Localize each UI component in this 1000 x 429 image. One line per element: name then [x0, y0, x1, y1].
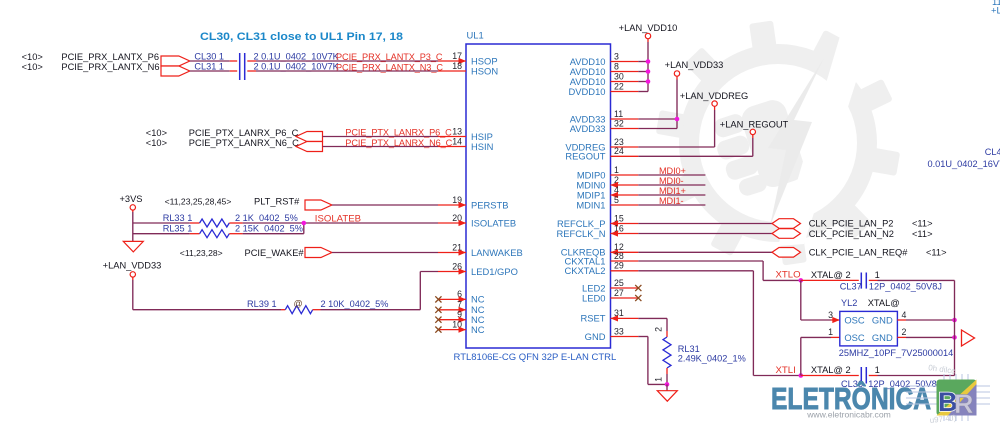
svg-text:OSC: OSC: [844, 332, 865, 343]
UL1 pin 22 DVDD10: [569, 81, 639, 97]
wire RL39 to UL1 pin26: [321, 272, 439, 310]
svg-text:HSON: HSON: [471, 65, 498, 76]
value CL36: 12P_0402_50V8J: [868, 379, 941, 389]
svg-text:PCIE_PTX_LANRX_P6_C: PCIE_PTX_LANRX_P6_C: [345, 128, 452, 138]
power +LAN_VDD33 node (left): [130, 272, 135, 277]
svg-text:XTLO: XTLO: [776, 269, 801, 280]
svg-text:XTAL@: XTAL@: [868, 298, 900, 308]
svg-text:<10>: <10>: [22, 62, 43, 72]
label 1 (CL36): [875, 365, 880, 375]
UL1 pin 5 MDIN1: [576, 195, 638, 211]
svg-text:MDI0+: MDI0+: [659, 166, 686, 176]
svg-text:+LAN_VDD10: +LAN_VDD10: [619, 23, 678, 33]
junction XTLI: [799, 373, 804, 378]
svg-text:ISOLATEB: ISOLATEB: [471, 217, 516, 228]
svg-text:NC: NC: [471, 294, 485, 305]
YL2 pin text OSC (top): [844, 315, 865, 326]
value CL31: 2 0.1U_0402_10V7K: [254, 62, 340, 72]
label 1 (CL37): [875, 270, 880, 280]
wire MDI1-: [638, 204, 705, 206]
svg-text:12P_0402_50V8J: 12P_0402_50V8J: [869, 281, 942, 291]
wire MDI0-: [638, 184, 705, 186]
label RL35 1: [163, 223, 193, 233]
UL1 pin 23 VDDREG: [565, 137, 638, 153]
svg-text:CLK_PCIE_LAN_P2: CLK_PCIE_LAN_P2: [809, 219, 894, 229]
wire +3VS down: [132, 210, 134, 241]
svg-text:+3VS: +3VS: [119, 194, 142, 204]
svg-text:<10>: <10>: [22, 52, 43, 62]
UL1 pin 31 RSET: [580, 308, 638, 324]
svg-text:<10>: <10>: [146, 138, 167, 148]
capacitor CL37: [801, 273, 878, 289]
wire REFCLK_N: [638, 233, 772, 235]
label CL36: [841, 379, 863, 389]
UL1 pin 11 AVDD33: [570, 109, 639, 125]
svg-text:<11>: <11>: [912, 219, 933, 229]
net label PCIE_PTX_LANRX_N6_C: [189, 138, 299, 148]
wire +LAN_VDD10 rail: [638, 39, 648, 92]
svg-text:REFCLK_N: REFCLK_N: [557, 228, 606, 239]
UL1 pin 2 MDIN0: [576, 175, 638, 191]
label sheet ref <11> (P2): [912, 219, 933, 229]
wire CL36 to right rail: [878, 375, 955, 377]
svg-text:PCIE_PTX_LANRX_N6_C: PCIE_PTX_LANRX_N6_C: [189, 138, 299, 148]
svg-text:PCIE_PRX_LANTX_P3_C: PCIE_PRX_LANTX_P3_C: [336, 52, 443, 62]
net label PCIE_WAKE#: [245, 248, 305, 258]
value CL37: 12P_0402_50V8J: [869, 281, 942, 291]
value RL35: 2 15K_0402_5%: [235, 223, 303, 233]
svg-text:2.49K_0402_1%: 2.49K_0402_1%: [678, 353, 746, 363]
svg-text:LANWAKEB: LANWAKEB: [471, 247, 523, 258]
value RL31: 2.49K_0402_1%: [678, 353, 746, 363]
UL1 pin 18 HSON: [438, 61, 498, 77]
wire to ground: [666, 384, 668, 390]
svg-text:XTLI: XTLI: [776, 365, 796, 376]
svg-text:2: 2: [654, 327, 664, 332]
svg-text:HSIN: HSIN: [471, 141, 493, 152]
svg-text:25MHZ_10PF_7V25000014: 25MHZ_10PF_7V25000014: [839, 348, 953, 358]
svg-text:13: 13: [452, 126, 462, 136]
label sheet ref <11,23,25,28,45>: [165, 197, 232, 207]
svg-text:PCIE_PTX_LANRX_P6_C: PCIE_PTX_LANRX_P6_C: [189, 128, 299, 138]
power +LAN_VDD33 node (right): [674, 71, 679, 76]
no-connect X (LED0): [635, 295, 641, 301]
UL1 pin 9 NC: [438, 310, 485, 326]
UL1 pin 19 PERSTB: [438, 195, 509, 211]
svg-text:u97 4J): u97 4J): [929, 413, 957, 424]
UL1 pin 7 NC: [438, 300, 485, 316]
power +LAN_VDDREG label: [680, 91, 748, 101]
svg-text:NC: NC: [471, 324, 485, 335]
UL1 pin 8 AVDD10: [570, 61, 639, 77]
power +LAN_VDD33 label (right): [665, 60, 724, 70]
svg-text:CLK_PCIE_LAN_REQ#: CLK_PCIE_LAN_REQ#: [809, 248, 909, 258]
wire YL2 pin4 to rail: [897, 319, 954, 321]
note: CL30, CL31 close to UL1 Pin 17, 18: [200, 31, 403, 43]
svg-text:28: 28: [614, 251, 624, 261]
svg-text:2 10K_0402_5%: 2 10K_0402_5%: [321, 299, 389, 309]
label @ on RL39: [294, 299, 303, 309]
svg-text:DVDD10: DVDD10: [569, 86, 606, 97]
label XTAL@ (YL2): [868, 298, 900, 308]
wire RL33 to UL1 pin20: [243, 222, 438, 224]
no-connect X (LED2): [635, 285, 641, 291]
port CLK_PCIE_LAN_REQ#: [772, 248, 801, 258]
svg-text:<11>: <11>: [926, 248, 947, 258]
clipped label 11 (top right): [992, 0, 1000, 7]
svg-text:RL33 1: RL33 1: [163, 213, 193, 223]
power +3VS label: [119, 194, 142, 204]
net label PLT_RST#: [254, 197, 300, 207]
UL1 pin 10 NC: [438, 319, 485, 335]
net label PCIE_PTX_LANRX_N6_C (red): [345, 138, 452, 148]
wire REGOUT: [638, 135, 753, 157]
power +LAN_VDDREG node: [712, 101, 717, 106]
YL2 pin text GND (top): [872, 315, 893, 326]
resistor RL33: [190, 219, 243, 227]
svg-text:5: 5: [614, 195, 619, 205]
power +3VS node: [130, 205, 135, 210]
net label MDI1+: [659, 186, 686, 196]
svg-text:25: 25: [614, 278, 624, 288]
svg-text:@: @: [294, 299, 303, 309]
label CL4 (clipped): [985, 147, 1000, 157]
junction (ISOLATEB): [302, 221, 307, 226]
net label XTLO: [776, 269, 801, 280]
port PCIE_PRX_LANTX_N6: [161, 66, 190, 76]
svg-text:REGOUT: REGOUT: [565, 151, 605, 162]
svg-text:CL30 1: CL30 1: [194, 51, 224, 61]
UL1 pin 15 REFCLK_P: [557, 213, 638, 229]
junction VDD10 pin30: [646, 79, 651, 84]
port PCIE_PTX_LANRX_P6_C: [296, 132, 323, 142]
svg-text:1: 1: [614, 165, 619, 175]
net label PCIE_PRX_LANTX_N6: [61, 62, 159, 72]
wire CKXTAL2 to XTLI: [638, 271, 801, 376]
label YL2 pin 3: [828, 310, 833, 320]
wire +LAN_VDD33 down: [133, 277, 281, 310]
svg-text:<10>: <10>: [146, 128, 167, 138]
junction XTLO: [799, 278, 804, 283]
label CL37: [840, 281, 862, 291]
resistor RL39: [281, 306, 321, 314]
svg-text:PCIE_PRX_LANTX_N3_C: PCIE_PRX_LANTX_N3_C: [336, 62, 443, 72]
svg-text:4: 4: [902, 310, 907, 320]
crystal YL2 body: [840, 311, 898, 346]
svg-text:GND: GND: [872, 315, 893, 326]
value CL30: 2 0.1U_0402_10V7K: [254, 51, 340, 61]
wire PLT_RST# to UL1 pin19: [332, 204, 438, 206]
wire PTX_P6 port to UL1 pin13: [323, 136, 439, 138]
port CLK_PCIE_LAN_P2: [772, 219, 801, 229]
capacitor CL31: [230, 66, 256, 80]
svg-text:PCIE_WAKE#: PCIE_WAKE#: [245, 248, 305, 258]
svg-text:2: 2: [902, 327, 907, 337]
no-connect X (NC pin 10): [435, 327, 441, 333]
wire CL37 to right rail: [878, 279, 955, 281]
wire RL35 to junction: [243, 223, 304, 234]
svg-text:1: 1: [875, 365, 880, 375]
UL1 pin 33 GND: [585, 326, 639, 342]
svg-text:22: 22: [614, 81, 624, 91]
svg-text:RSET: RSET: [580, 313, 605, 324]
junction VDD33 pin11: [675, 117, 680, 122]
svg-text:1: 1: [654, 377, 664, 382]
net label CLK_PCIE_LAN_REQ#: [809, 248, 909, 258]
power +LAN_VDD10 node: [645, 33, 650, 38]
wire to RL35: [133, 233, 190, 235]
UL1 pin 17 HSOP: [438, 51, 498, 67]
svg-text:CLK_PCIE_LAN_N2: CLK_PCIE_LAN_N2: [809, 229, 894, 239]
svg-text:+LAN_VDD33: +LAN_VDD33: [665, 60, 724, 70]
wire PRX_P6 port to CL30: [190, 60, 230, 62]
svg-text:CL4: CL4: [985, 147, 1000, 157]
svg-text:3: 3: [828, 310, 833, 320]
value RL39: 2 10K_0402_5%: [321, 299, 389, 309]
label RL31 pin 1: [654, 377, 664, 382]
label sheet ref <10> (PRX_N6): [22, 62, 43, 72]
UL1 pin 13 HSIP: [438, 126, 493, 142]
svg-text:<11,23,28>: <11,23,28>: [180, 248, 223, 258]
svg-text:PLT_RST#: PLT_RST#: [254, 197, 300, 207]
svg-text:2 1K_0402_5%: 2 1K_0402_5%: [235, 213, 298, 223]
svg-text:PERSTB: PERSTB: [471, 199, 509, 210]
svg-text:2 0.1U_0402_10V7K: 2 0.1U_0402_10V7K: [254, 62, 340, 72]
svg-text:RL31: RL31: [678, 344, 700, 354]
ground (below RL35): [123, 241, 143, 252]
UL1 pin 21 LANWAKEB: [438, 242, 523, 257]
UL1 pin 28 CKXTAL1: [565, 251, 639, 267]
net label PCIE_PTX_LANRX_P6_C: [189, 128, 299, 138]
capacitor CL30: [230, 53, 256, 66]
port PCIE_WAKE#: [305, 248, 332, 258]
wire GND pin33: [638, 337, 667, 385]
wire +3VS to RL33: [133, 222, 190, 224]
svg-text:<11>: <11>: [912, 229, 933, 239]
label RL39 1: [247, 299, 277, 309]
UL1 pin 14 HSIN: [438, 136, 493, 152]
off-page connector (right): [962, 330, 975, 346]
svg-text:0.01U_0402_16V7: 0.01U_0402_16V7: [928, 159, 1000, 169]
power +LAN_REGOUT label: [720, 120, 789, 130]
resistor RL31: [663, 331, 671, 374]
UL1 pin 30 AVDD10: [570, 71, 639, 87]
svg-text:3: 3: [614, 51, 619, 61]
net label PCIE_PRX_LANTX_N3_C: [336, 62, 443, 72]
UL1 pin 25 LED2: [582, 278, 638, 294]
svg-text:MDI0-: MDI0-: [659, 176, 684, 186]
UL1 pin 27 LED0: [582, 288, 638, 304]
svg-text:YL2: YL2: [841, 298, 857, 308]
svg-text:XTAL@ 2: XTAL@ 2: [811, 365, 851, 375]
wire REFCLK_P: [638, 223, 772, 225]
svg-text:R: R: [954, 389, 974, 419]
label sheet ref <10> (PTX_N6): [146, 138, 167, 148]
label sheet ref <11,23,28>: [180, 248, 223, 258]
net label CLK_PCIE_LAN_P2: [809, 219, 894, 229]
svg-text:+LAN_VDD33: +LAN_VDD33: [103, 260, 162, 270]
wire MDI1+: [638, 194, 705, 196]
label YL2 pin 4: [902, 310, 907, 320]
label CL31 1: [194, 62, 224, 72]
net label MDI0+: [659, 166, 686, 176]
watermark gear logo: [656, 21, 900, 266]
wire CKXTAL1 to XTLO: [638, 261, 801, 280]
label YL2: [841, 298, 857, 308]
power +LAN_VDD33 label (left): [103, 260, 162, 270]
label YL2 pin 1: [828, 327, 833, 337]
UL1 pin 29 CKXTAL2: [565, 261, 639, 277]
net label PCIE_PRX_LANTX_P6: [61, 52, 159, 62]
svg-text:33: 33: [614, 326, 624, 336]
svg-text:GND: GND: [872, 332, 893, 343]
ground (RL31/GND): [657, 391, 677, 402]
wire PTX_N6 port to UL1 pin14: [323, 146, 439, 148]
svg-text:OSC: OSC: [844, 315, 865, 326]
svg-text:29: 29: [614, 261, 624, 271]
UL1 pin 12 CLKREQB: [561, 242, 639, 258]
wire MDI0+: [638, 174, 705, 176]
YL2 pin text OSC (bottom): [844, 332, 865, 343]
port CLK_PCIE_LAN_N2: [772, 229, 801, 239]
svg-text:RL35 1: RL35 1: [163, 223, 193, 233]
wire PCIE_WAKE# to UL1 pin21: [332, 252, 438, 254]
svg-text:CL37: CL37: [840, 281, 862, 291]
svg-text:PCIE_PRX_LANTX_N6: PCIE_PRX_LANTX_N6: [61, 62, 159, 72]
label sheet ref <10> (PTX_P6): [146, 128, 167, 138]
svg-text:30: 30: [614, 71, 624, 81]
UL1 pin 6 NC: [438, 289, 485, 305]
svg-text:MDIN1: MDIN1: [576, 199, 605, 210]
UL1 pin 32 AVDD33: [570, 118, 639, 134]
capacitor CL36: [801, 367, 878, 384]
net label XTLI: [776, 365, 796, 376]
UL1 pin 16 REFCLK_N: [557, 223, 639, 239]
svg-text:+LAN_VDDREG: +LAN_VDDREG: [680, 91, 748, 101]
clipped label +L (top right): [991, 5, 1000, 16]
net label PCIE_PTX_LANRX_P6_C (red): [345, 128, 452, 138]
junction rail pin4: [952, 318, 957, 323]
junction VDD10 pin3: [646, 59, 651, 64]
wire CL30 to UL1 pin17: [256, 60, 438, 62]
IC UL1 refdes label: [467, 30, 484, 41]
wire CLKREQB: [638, 251, 772, 253]
svg-text:18: 18: [452, 61, 462, 71]
junction gnd: [665, 382, 670, 387]
wire XTLI to YL2 pin1: [801, 337, 840, 375]
resistor RL35: [190, 230, 243, 238]
net label ISOLATEB: [315, 213, 361, 224]
no-connect X (NC pin 7): [435, 307, 441, 313]
no-connect X (NC pin 9): [435, 317, 441, 323]
svg-text:2 15K_0402_5%: 2 15K_0402_5%: [235, 223, 303, 233]
UL1 pin 26 LED1/GPO: [438, 261, 518, 277]
svg-text:RTL8106E-CG QFN 32P E-LAN CTRL: RTL8106E-CG QFN 32P E-LAN CTRL: [454, 352, 617, 363]
wire PRX_N6 port to CL31: [190, 70, 230, 72]
svg-text:CL30, CL31 close to UL1 Pin 17: CL30, CL31 close to UL1 Pin 17, 18: [200, 31, 403, 43]
svg-text:CKXTAL2: CKXTAL2: [565, 265, 606, 276]
svg-text:RL39 1: RL39 1: [247, 299, 277, 309]
svg-text:GND: GND: [585, 331, 606, 342]
UL1 pin 4 MDIP1: [577, 185, 638, 201]
label YL2 pin 2: [902, 327, 907, 337]
UL1 pin 1 MDIP0: [577, 165, 638, 181]
power +LAN_VDD10 label: [619, 23, 678, 33]
label RL33 1: [163, 213, 193, 223]
label RL31 pin 2: [654, 327, 664, 332]
svg-text:8: 8: [614, 61, 619, 71]
wire XTLO to YL2 pin3: [801, 280, 840, 323]
wire RSET to RL31: [638, 318, 667, 331]
svg-text:11: 11: [614, 109, 623, 119]
label sheet ref <10> (PRX_P6): [22, 52, 43, 62]
svg-text:XTAL@ 2: XTAL@ 2: [811, 270, 851, 280]
svg-text:<11,23,25,28,45>: <11,23,25,28,45>: [165, 197, 232, 207]
label XTAL@ 2 (CL36): [811, 365, 851, 375]
wire YL2 pin2 to rail: [897, 336, 954, 338]
IC UL1 part name label: [454, 352, 617, 363]
svg-text:+L: +L: [991, 5, 1000, 16]
IC UL1 body: [466, 44, 611, 348]
UL1 pin 3 AVDD10: [570, 51, 639, 67]
svg-text:2 0.1U_0402_10V7K: 2 0.1U_0402_10V7K: [254, 51, 340, 61]
svg-text:ISOLATEB: ISOLATEB: [315, 213, 361, 224]
label CL30 1: [194, 51, 224, 61]
label RL31: [678, 344, 700, 354]
label sheet ref <11> (N2): [912, 229, 933, 239]
value RL33: 2 1K_0402_5%: [235, 213, 298, 223]
wire +LAN_VDD33 rail: [638, 76, 677, 128]
port PLT_RST#: [305, 200, 332, 210]
svg-text:UL1: UL1: [467, 30, 484, 41]
net label MDI0-: [659, 176, 684, 186]
value 0.01U_0402_16V7 (clipped): [928, 159, 1000, 169]
no-connect X (NC pin 6): [435, 296, 441, 302]
svg-text:PCIE_PTX_LANRX_N6_C: PCIE_PTX_LANRX_N6_C: [345, 138, 452, 148]
net label CLK_PCIE_LAN_N2: [809, 229, 894, 239]
svg-text:24: 24: [614, 146, 624, 156]
net label MDI1-: [659, 196, 684, 206]
value YL2: 25MHZ_10PF_7V25000014: [839, 348, 953, 358]
svg-text:32: 32: [614, 118, 624, 128]
power +LAN_REGOUT node: [750, 129, 755, 134]
YL2 pin text GND (bottom): [872, 332, 893, 343]
svg-text:CL31 1: CL31 1: [194, 62, 224, 72]
port PCIE_PRX_LANTX_P6: [161, 56, 190, 66]
net label PCIE_PRX_LANTX_P3_C: [336, 52, 443, 62]
svg-text:14: 14: [452, 136, 462, 146]
EletronicaBR logo: [771, 363, 990, 425]
UL1 pin 24 REGOUT: [565, 146, 638, 162]
junction rail pin2: [952, 335, 957, 340]
svg-text:27: 27: [614, 288, 624, 298]
svg-text:MDI1-: MDI1-: [659, 196, 684, 206]
port PCIE_PTX_LANRX_N6_C: [296, 142, 323, 152]
svg-text:AVDD33: AVDD33: [570, 123, 606, 134]
wire CL31 to UL1 pin18: [256, 70, 438, 72]
svg-text:LED0: LED0: [582, 292, 605, 303]
svg-text:PCIE_PRX_LANTX_P6: PCIE_PRX_LANTX_P6: [61, 52, 159, 62]
label XTAL@ 2 (CL37): [811, 270, 851, 280]
label sheet ref <11> (REQ#): [926, 248, 947, 258]
wire right rail: [954, 280, 956, 375]
wire RL31 to gnd junction: [666, 374, 668, 384]
UL1 pin 20 ISOLATEB: [438, 213, 516, 229]
svg-text:1: 1: [828, 327, 833, 337]
junction VDD10 pin8: [646, 69, 651, 74]
svg-text:1: 1: [875, 270, 880, 280]
svg-text:MDI1+: MDI1+: [659, 186, 686, 196]
